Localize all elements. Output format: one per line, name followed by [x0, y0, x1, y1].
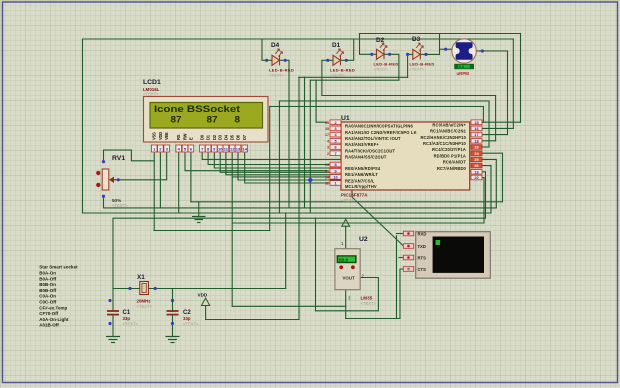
temperature sensor U2 LM35: [335, 236, 377, 306]
wire D2 anode: [360, 34, 372, 55]
wire right vertical to U1 pin: [512, 39, 514, 128]
svg-text:RA0/AN0C1INH/IC0PSATIGLPIN6: RA0/AN0C1INH/IC0PSATIGLPIN6: [345, 124, 413, 129]
wire LCD D3: [220, 153, 342, 172]
svg-text:Star Smart socket: Star Smart socket: [39, 265, 78, 270]
svg-text:25: 25: [474, 158, 478, 162]
svg-text:CF70-Off: CF70-Off: [39, 311, 59, 316]
svg-text:RD/BD0 P1/P1A: RD/BD0 P1/P1A: [434, 153, 466, 158]
svg-text:RA2/AN2/TOL/VINTIC IOUT: RA2/AN2/TOL/VINTIC IOUT: [345, 136, 401, 141]
wire RTS stub: [399, 257, 403, 259]
svg-text:RC1/AN/BC/C2N1: RC1/AN/BC/C2N1: [430, 129, 467, 134]
wire vertical from D2 rail to U1: [316, 80, 327, 122]
wire right vertical 2 to U1 pin: [520, 34, 522, 123]
svg-text:33p: 33p: [123, 316, 131, 321]
virtual terminal: [403, 231, 490, 278]
wire D1 cathode up: [346, 39, 353, 60]
svg-text:RXD: RXD: [418, 231, 427, 236]
svg-text:RE2/AN7/CS/L: RE2/AN7/CS/L: [345, 178, 375, 183]
svg-text:U1: U1: [341, 115, 350, 122]
wire rail 3 under U1: [83, 166, 492, 213]
svg-text:Icone BSSocket: Icone BSSocket: [154, 104, 240, 114]
svg-text:3: 3: [327, 146, 329, 150]
svg-text:PIC16F877A: PIC16F877A: [341, 193, 368, 198]
svg-text:RV1: RV1: [112, 155, 125, 162]
U1 left pin boxes: [325, 120, 341, 186]
wire LCD RW: [185, 153, 327, 171]
svg-text:43: 43: [325, 169, 329, 173]
wire rail above U1 a: [322, 96, 496, 141]
power VDD arrow bottom: [202, 298, 210, 306]
svg-text:<TEXT>: <TEXT>: [341, 198, 357, 203]
wire LCD RS down: [178, 153, 180, 213]
wire crystal rail: [113, 288, 286, 290]
svg-text:TXD: TXD: [418, 244, 426, 249]
wire vertical from D3 rail long: [298, 77, 300, 319]
wire LCD E: [190, 153, 192, 202]
wire LCD D1: [208, 153, 342, 165]
svg-text:33p: 33p: [183, 316, 191, 321]
junction dot wiper: [117, 178, 120, 181]
wire crystal net up: [285, 213, 287, 289]
wire rail 1 under U1: [191, 153, 503, 202]
crystal X1: [128, 274, 156, 309]
svg-text:14: 14: [325, 176, 329, 180]
svg-text:<TEXT>: <TEXT>: [269, 73, 285, 78]
LCD pin number boxes: [151, 145, 247, 152]
svg-text:33: 33: [325, 121, 329, 125]
wire vertical from D3 rail: [304, 77, 306, 208]
wire rail under D2: [310, 79, 399, 81]
svg-text:B0B-On: B0B-On: [39, 282, 56, 287]
wire LCD D5 stair: [232, 176, 342, 178]
wire D3 anode down: [407, 54, 409, 77]
svg-text:87: 87: [207, 115, 218, 125]
wire VDD stem: [206, 306, 299, 320]
svg-text:<TEXT>: <TEXT>: [330, 73, 346, 78]
svg-text:13: 13: [325, 163, 329, 167]
svg-text:18: 18: [474, 139, 478, 143]
svg-text:10: 10: [333, 176, 337, 180]
U1 internal pin names right column: [420, 122, 466, 170]
wire LCD D7: [245, 153, 342, 183]
svg-text:13: 13: [236, 147, 241, 152]
svg-text:<TEXT>: <TEXT>: [361, 301, 377, 306]
svg-text:RC6/AN/DT: RC6/AN/DT: [443, 160, 467, 165]
svg-text:17: 17: [474, 133, 478, 137]
wire RXD vertical: [396, 236, 398, 319]
svg-text:VDD: VDD: [158, 132, 163, 140]
svg-text:B0B-Off: B0B-Off: [39, 288, 56, 293]
wire vertical mid b: [269, 107, 271, 231]
svg-text:10: 10: [218, 147, 223, 152]
svg-text:<TEXT>: <TEXT>: [137, 304, 153, 309]
svg-text:CF#-ex.Temp: CF#-ex.Temp: [39, 305, 67, 310]
svg-text:C0C-Off: C0C-Off: [39, 300, 56, 305]
wire D2 cathode: [390, 54, 399, 80]
svg-text:CTS: CTS: [418, 267, 427, 272]
LED D2: [370, 37, 398, 72]
wire C1 lower lead: [112, 315, 114, 336]
wire C2 lower lead: [172, 316, 174, 336]
wire U2 pin3: [346, 290, 400, 319]
LCD pin name marks (rotated labels): [152, 132, 248, 140]
wire motor right: [476, 51, 507, 135]
wire LCD VSS down: [153, 153, 155, 231]
svg-text:8: 8: [235, 115, 241, 125]
wire rail above U1 c: [270, 107, 484, 123]
power VDD arrow U2 pin1: [342, 219, 350, 226]
svg-text:1: 1: [334, 182, 336, 186]
svg-text:9: 9: [334, 169, 336, 173]
svg-text:<TEXT>: <TEXT>: [143, 91, 159, 96]
svg-text:<TEXT>: <TEXT>: [123, 322, 139, 327]
wire D4 cathode: [285, 60, 289, 208]
ground C2: [166, 337, 180, 343]
wire rail above U1 b: [279, 101, 489, 147]
capacitor C1: [107, 299, 139, 327]
svg-text:VOUT: VOUT: [343, 276, 356, 281]
wire rail 2 under U1: [104, 159, 496, 208]
wire rail 6 from VSS: [154, 230, 270, 232]
svg-text:RW: RW: [183, 133, 188, 140]
svg-text:3: 3: [334, 127, 336, 131]
legend text block: [39, 265, 78, 328]
LED D3: [406, 36, 435, 72]
wire rail 5 under U1: [232, 178, 484, 224]
svg-text:RS: RS: [176, 134, 181, 140]
svg-text:RC2/HANK/C2N2HP10: RC2/HANK/C2N2HP10: [420, 135, 466, 140]
potentiometer RV1: [96, 155, 128, 208]
svg-text:B0A-Off: B0A-Off: [39, 276, 56, 281]
svg-text:VDD: VDD: [198, 293, 208, 298]
svg-text:7: 7: [334, 152, 336, 156]
junction dot mid: [307, 177, 313, 183]
svg-text:15: 15: [474, 121, 478, 125]
svg-text:5: 5: [334, 139, 336, 143]
wire LCD D4: [226, 153, 342, 175]
U1 internal pin names left column: [345, 124, 417, 190]
wire LCD D0: [202, 153, 342, 159]
wire top rail: [83, 38, 514, 40]
wire LCD VDD down: [159, 153, 161, 208]
wire LCD D6: [238, 153, 342, 180]
svg-text:A01B-Off: A01B-Off: [39, 323, 59, 328]
wire top rail 2: [360, 33, 521, 35]
svg-text:D4: D4: [271, 42, 280, 49]
wire C2 upper lead: [172, 289, 174, 312]
svg-text:32: 32: [325, 182, 329, 186]
wire rail 4 under U1: [114, 172, 486, 218]
svg-text:LCD1: LCD1: [143, 79, 161, 86]
svg-text:35: 35: [325, 127, 329, 131]
svg-text:RC4/C20/2T/P1A: RC4/C20/2T/P1A: [432, 147, 466, 152]
LED D1: [326, 42, 355, 78]
wire D3 cathode up: [426, 34, 440, 55]
svg-text:2: 2: [334, 121, 336, 125]
wire LCD D2: [214, 153, 342, 168]
ground mid: [192, 217, 206, 223]
microcontroller U1 PIC16F877A: [341, 115, 470, 203]
wire D1 anode down: [322, 60, 328, 95]
svg-text:20: 20: [474, 176, 478, 180]
wire RXD stub: [397, 233, 404, 235]
svg-text:C0A-On: C0A-On: [39, 294, 56, 299]
wire ground stub mid: [198, 202, 200, 216]
LED D4: [265, 42, 294, 78]
LCD LM016L body: [144, 97, 269, 143]
svg-text:RE1/AN6/WR/LT: RE1/AN6/WR/LT: [345, 172, 378, 177]
wire U1 right pin stubs up: [482, 121, 521, 123]
svg-text:RA4/T0CKI/OSC2C1OUT: RA4/T0CKI/OSC2C1OUT: [345, 148, 396, 153]
svg-text:17: 17: [325, 133, 329, 137]
svg-text:14: 14: [242, 147, 247, 152]
svg-text:VEE: VEE: [164, 132, 169, 140]
wire TXD diagonal: [352, 190, 404, 246]
svg-text:RC0/AB/a/C2IN+: RC0/AB/a/C2IN+: [432, 122, 466, 127]
wire CTS down: [400, 269, 403, 319]
U1 right pin boxes: [471, 120, 482, 180]
svg-text:<TEXT>: <TEXT>: [410, 67, 426, 72]
svg-text:<TEXT>: <TEXT>: [112, 203, 128, 208]
svg-text:RC3/A3/C1C/N3HP10: RC3/A3/C1C/N3HP10: [423, 141, 467, 146]
svg-text:88.8: 88.8: [339, 257, 348, 262]
wire LCD VEE to pot wiper: [111, 153, 167, 180]
svg-text:19: 19: [474, 170, 478, 174]
svg-text:U2: U2: [359, 236, 368, 243]
svg-text:D1: D1: [332, 42, 341, 49]
svg-text:23: 23: [474, 146, 478, 150]
wire D4 anode stub: [262, 39, 267, 60]
svg-text:RE0/AN5/RD/PS4: RE0/AN5/RD/PS4: [345, 166, 381, 171]
wire U2 pin2: [316, 278, 379, 311]
wire rail to U2 pin3: [232, 305, 346, 307]
svg-text:uRPM: uRPM: [457, 71, 470, 76]
wire LCD D5 long: [231, 153, 233, 306]
svg-text:RTS: RTS: [418, 255, 427, 260]
svg-text:RA5/AN4/SS/C2OUT: RA5/AN4/SS/C2OUT: [345, 155, 387, 160]
svg-text:RA1/AN1/IO C2ND/VREF/IC5PO LK: RA1/AN1/IO C2ND/VREF/IC5PO LK: [345, 130, 417, 135]
svg-text:4: 4: [327, 139, 329, 143]
capacitor C2: [167, 299, 200, 327]
svg-text:12: 12: [230, 147, 235, 152]
svg-text:MCLR/Vpp/THV: MCLR/Vpp/THV: [345, 184, 377, 189]
svg-text:2: 2: [327, 152, 329, 156]
svg-text:0.0: 0.0: [459, 65, 464, 69]
wire motor left: [440, 48, 452, 50]
svg-text:87: 87: [171, 115, 182, 125]
svg-text:RC7/AN/RBD0: RC7/AN/RBD0: [437, 166, 467, 171]
wire vertical mid a: [278, 101, 280, 213]
wire U2 pin1 lead: [345, 226, 347, 248]
svg-text:6: 6: [334, 146, 336, 150]
svg-text:VSS: VSS: [152, 132, 157, 140]
svg-text:LM35: LM35: [361, 296, 373, 301]
svg-text:26: 26: [474, 164, 478, 168]
ground C1: [106, 337, 120, 343]
wire RV1 bottom: [103, 196, 105, 208]
svg-text:X1: X1: [137, 274, 145, 281]
wire rail under D3: [299, 76, 408, 78]
svg-text:<TEXT>: <TEXT>: [374, 67, 390, 72]
motor M1: [444, 39, 484, 76]
svg-text:D3: D3: [412, 36, 421, 43]
wire RV1 top frame: [104, 150, 155, 162]
wire U2 pin2 vertical up: [315, 218, 317, 311]
svg-text:<TEXT>: <TEXT>: [183, 322, 199, 327]
svg-text:RA3/AN3/VREF+: RA3/AN3/VREF+: [345, 142, 379, 147]
svg-text:A0A-On-Light: A0A-On-Light: [39, 317, 69, 322]
wire C1 upper lead: [112, 218, 114, 310]
svg-text:8: 8: [334, 163, 336, 167]
svg-text:16: 16: [474, 127, 478, 131]
wire left vertical: [82, 39, 84, 213]
svg-text:20MHz: 20MHz: [137, 299, 152, 304]
svg-text:B0A-On: B0A-On: [39, 271, 56, 276]
wire vertical from D2 rail: [309, 80, 311, 213]
